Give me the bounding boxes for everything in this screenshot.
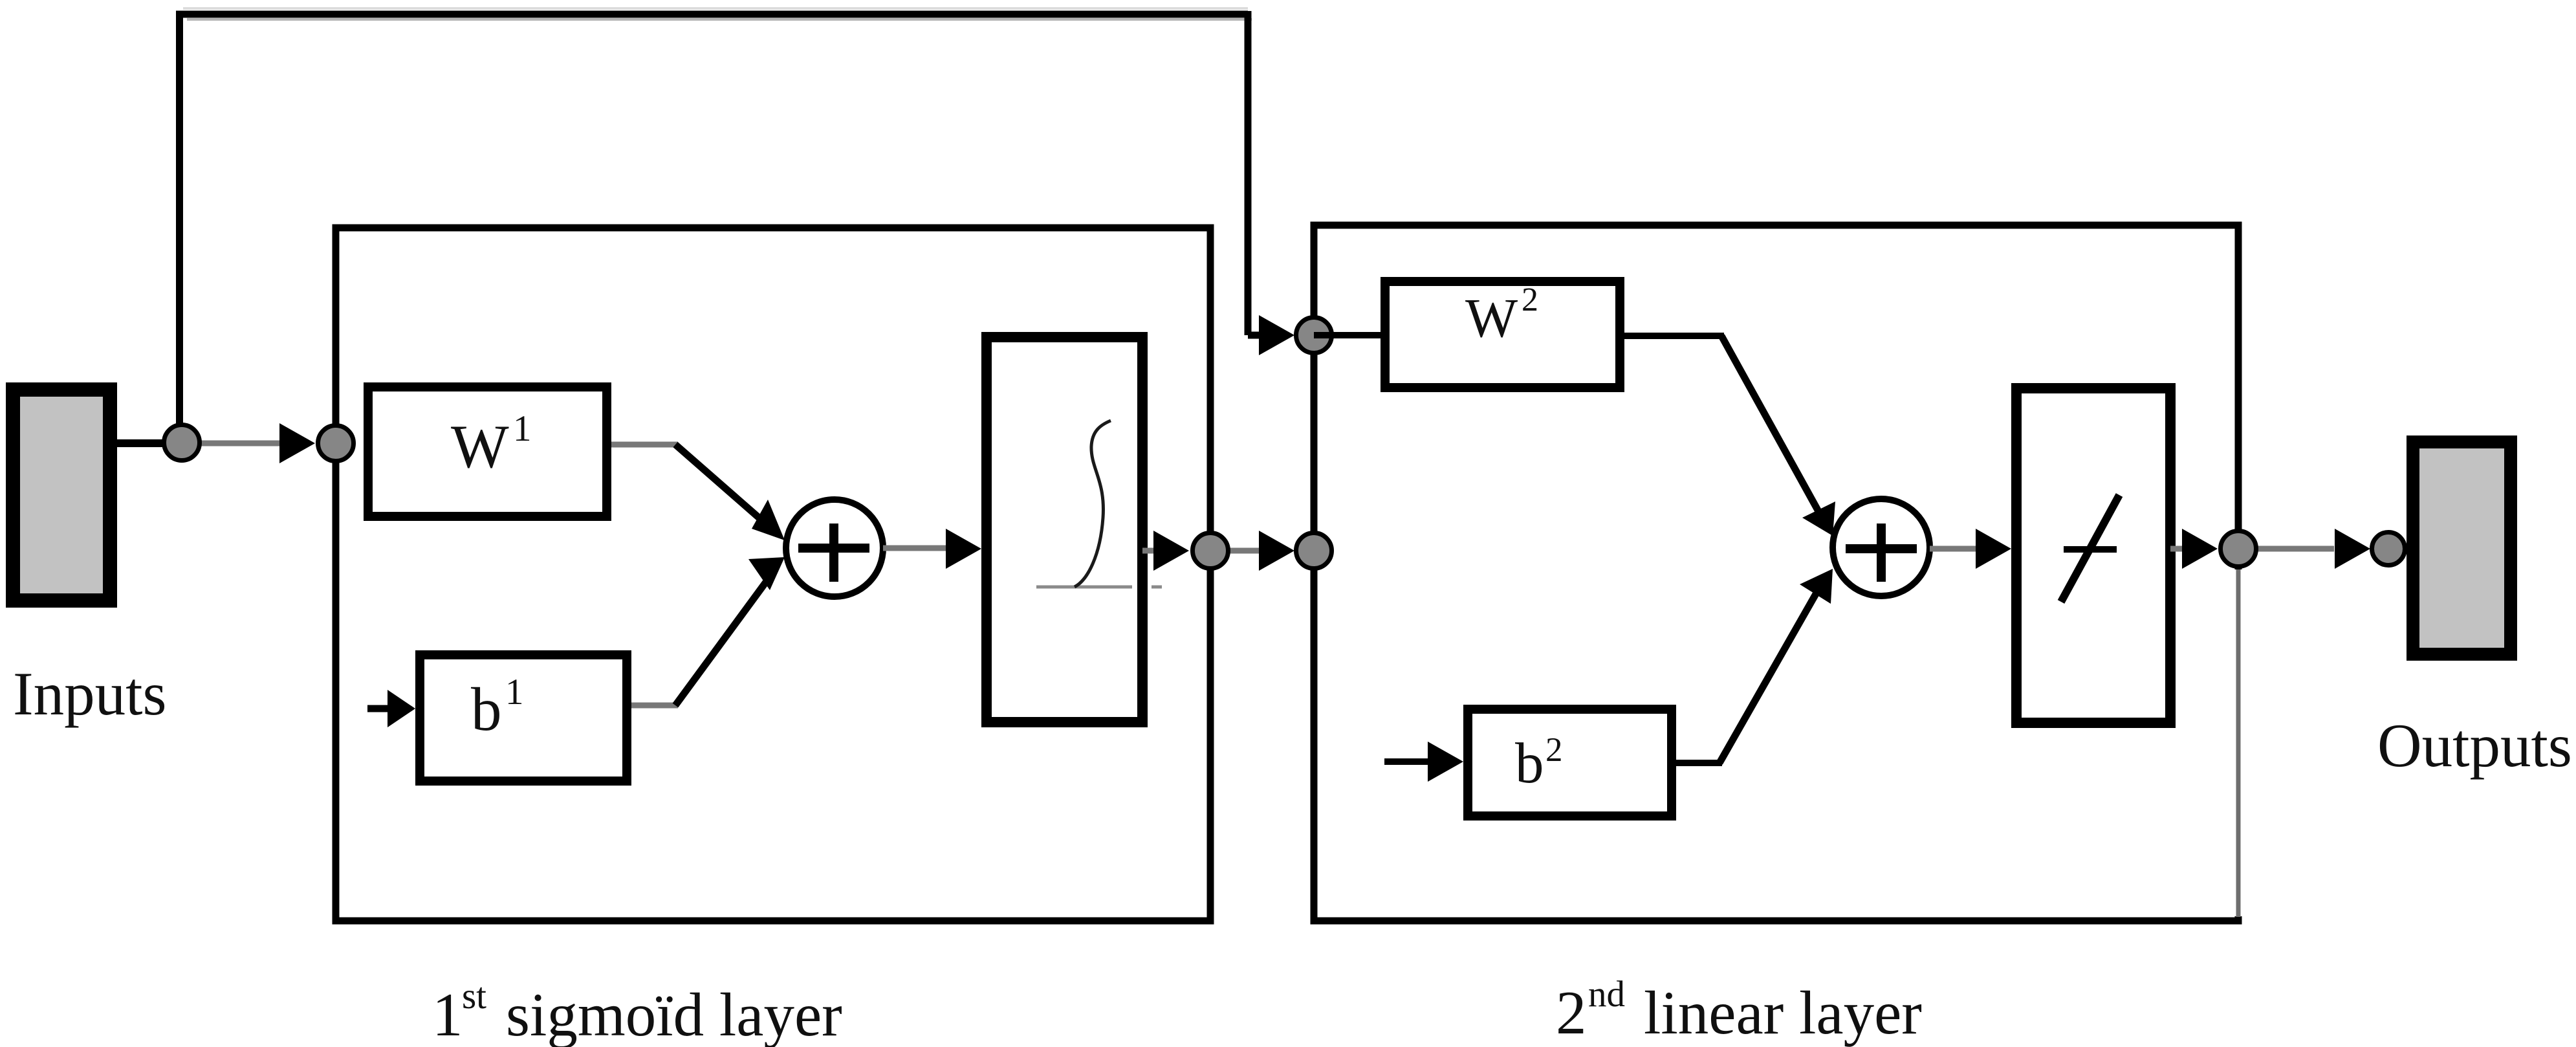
arrowhead into b2 [1428, 742, 1463, 782]
wire b1 diagonal to sum S1 [675, 581, 767, 705]
svg-text:Inputs: Inputs [13, 659, 167, 728]
svg-text:b: b [1515, 732, 1544, 795]
arrowhead into node F [2182, 529, 2218, 569]
svg-text:linear layer: linear layer [1644, 978, 1922, 1047]
wire stub into b2 [1384, 758, 1430, 765]
wire node A to arrow [182, 441, 282, 446]
svg-text:st: st [462, 976, 486, 1017]
svg-text:sigmoïd layer: sigmoïd layer [506, 980, 842, 1047]
arrowhead into node D [1153, 531, 1189, 571]
svg-text:2: 2 [1545, 731, 1563, 769]
wire node D to node E [1210, 548, 1259, 554]
wire S2 to linear block [1930, 546, 1976, 552]
node C (on L2 left edge, upper) [1296, 318, 1332, 353]
arrowhead b1 into S1 [748, 557, 785, 590]
arrowhead into b1 [387, 690, 415, 727]
wire linear out [2170, 546, 2187, 552]
svg-text:2: 2 [1522, 281, 1538, 318]
input block (gray) [13, 390, 110, 601]
svg-text:1: 1 [432, 980, 463, 1047]
svg-text:b: b [471, 675, 502, 744]
sigmoid transfer block F1 [987, 337, 1142, 722]
arrowhead W2 into S2 [1802, 501, 1835, 536]
arrowhead b2 into S2 [1800, 569, 1833, 604]
svg-text:1: 1 [513, 408, 532, 449]
wire feedback right vertical down [1245, 11, 1252, 335]
node A (input junction) [164, 425, 200, 461]
output block (gray) [2413, 442, 2511, 654]
wire feedback into node C [1248, 332, 1261, 339]
weight box W2 [1385, 281, 1620, 388]
svg-text:nd: nd [1588, 974, 1625, 1015]
wire node C to W2 [1314, 332, 1381, 338]
sum junction S1 [786, 500, 883, 597]
bias box b1 [420, 655, 627, 781]
wire inputs to node A [117, 439, 182, 447]
arrowhead into node G [2335, 529, 2370, 569]
wire feedback vertical from node A up [176, 14, 183, 443]
wire feedback shadow below [187, 18, 1252, 21]
arrowhead into node E [1259, 531, 1294, 571]
linear slash [2061, 495, 2119, 602]
wire S1 to sigmoid block [883, 546, 948, 551]
svg-text:W: W [451, 412, 509, 481]
wire W2 out horizontal [1624, 333, 1724, 339]
wire sigmoid out [1142, 548, 1158, 554]
layer box L2 (2nd linear layer) [1314, 225, 2238, 921]
wire L2 right edge below node F (lighter) [2234, 569, 2242, 916]
sigmoid axis line [1036, 586, 1132, 589]
node D (on L1 right edge) [1193, 533, 1228, 569]
wire W2 diagonal to sum S2 [1721, 336, 1819, 512]
sum junction S2 [1833, 499, 1930, 596]
linear transfer block F2 [2016, 388, 2170, 723]
svg-text:1: 1 [505, 672, 524, 712]
arrowhead into sigmoid block [946, 529, 981, 569]
plus sign S1 [798, 544, 869, 553]
node E (on L2 left edge, lower) [1296, 533, 1332, 569]
linear axis bar [2064, 546, 2117, 553]
wire feedback shadow above [183, 7, 1248, 10]
wire W1 diagonal to sum S1 [675, 445, 763, 522]
layer box L1 (1st sigmoid layer) [336, 228, 1210, 921]
wire stub into b1 [367, 705, 391, 712]
sigmoid curve [1075, 421, 1111, 587]
arrowhead into node B [279, 423, 315, 463]
wire feedback top horizontal [176, 11, 1248, 18]
wire W1 out horizontal [611, 442, 678, 448]
weight box W1 [368, 387, 607, 516]
wire b2 out horizontal [1676, 760, 1722, 766]
arrowhead into linear block [1976, 529, 2011, 569]
svg-text:W: W [1465, 287, 1518, 349]
node F (on L2 right edge) [2221, 531, 2256, 567]
bias box b2 [1468, 709, 1672, 816]
node G (at outputs) [2372, 533, 2405, 566]
wire b1 out horizontal [631, 703, 678, 709]
wire b2 diagonal to sum S2 [1719, 588, 1819, 763]
svg-text:2: 2 [1556, 978, 1587, 1047]
arrowhead into node C [1259, 315, 1294, 355]
plus sign S2 [1846, 544, 1917, 553]
node B (on L1 left edge) [318, 426, 354, 461]
wire node F to node G [2239, 546, 2334, 552]
arrowhead W1 into S1 [752, 500, 785, 540]
svg-text:Outputs: Outputs [2377, 711, 2572, 780]
